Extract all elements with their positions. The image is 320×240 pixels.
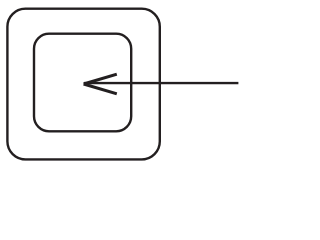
inner enclosure (inner rounded square) xyxy=(34,34,131,132)
arrowhead lower barb xyxy=(84,84,117,94)
wire (horizontal lead entering from right) xyxy=(84,82,238,84)
arrowhead upper barb xyxy=(84,74,117,84)
outer enclosure (outer rounded square) xyxy=(7,9,159,160)
